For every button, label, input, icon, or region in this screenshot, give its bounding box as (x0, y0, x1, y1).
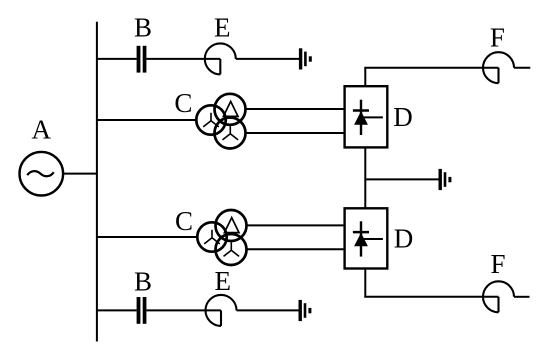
ac source A (20, 152, 64, 196)
wire C1 upper winding to D1 (246, 108, 345, 110)
converter D2 (345, 208, 388, 268)
capacitor B2 (137, 297, 147, 324)
delta symbol (C1 upper winding) (223, 101, 238, 116)
wire filter E1 to ground (236, 58, 299, 60)
filter F1 (483, 52, 514, 83)
svg-text:D: D (394, 224, 414, 254)
transformer C1 (three-winding) (196, 94, 245, 149)
transformer C2 (three-winding) (197, 210, 246, 265)
ground (top branch) (299, 48, 312, 69)
wire capacitor B1 to filter E1 (146, 58, 220, 60)
delta symbol (C2 upper winding) (224, 218, 239, 233)
wire corner to filter F1 (364, 67, 498, 69)
filter E2 (206, 295, 237, 326)
svg-text:C: C (174, 88, 192, 118)
wire filter F1 to line end (514, 67, 530, 69)
wire corner to filter F2 (364, 296, 498, 298)
wye symbol (C2 lower winding) (224, 242, 240, 256)
wire bus to transformer C1 (97, 119, 197, 121)
wye symbol (C1 lower winding) (223, 126, 239, 140)
svg-text:B: B (134, 267, 152, 297)
wye symbol (C2 left winding) (204, 230, 220, 244)
converter D1 (345, 86, 388, 147)
wire D1 top to corner (364, 68, 366, 87)
wire bus to transformer C2 (97, 236, 198, 238)
capacitor B1 (137, 46, 147, 73)
wire C1 lower winding to D1 (246, 132, 345, 134)
ground (dc midpoint) (439, 169, 452, 190)
wire filter E2 to ground (237, 309, 299, 311)
svg-text:F: F (490, 22, 505, 52)
ground (bottom branch) (299, 300, 312, 321)
svg-text:E: E (215, 266, 232, 296)
wire C2 upper winding to D2 (247, 224, 345, 226)
thyristor (inside D1) (353, 100, 383, 135)
svg-text:A: A (32, 115, 52, 145)
wire filter F2 to line end (514, 296, 530, 298)
wire D1 bottom to D2 top (364, 147, 366, 208)
wire bus to capacitor B2 (bottom branch) (97, 309, 137, 311)
svg-text:E: E (214, 13, 231, 43)
filter E1 (205, 43, 236, 74)
wire midpoint to ground (365, 178, 438, 180)
svg-text:C: C (175, 206, 193, 236)
svg-text:B: B (134, 13, 152, 43)
svg-text:F: F (490, 249, 505, 279)
wire capacitor B2 to filter E2 (146, 309, 221, 311)
wire D2 bottom to corner (364, 269, 366, 297)
svg-text:D: D (393, 102, 413, 132)
bus bar (vertical) (96, 22, 98, 342)
filter F2 (483, 281, 514, 312)
thyristor (inside D2) (353, 221, 383, 256)
wye symbol (C1 left winding) (203, 113, 219, 127)
wire C2 lower winding to D2 (247, 248, 345, 250)
wire bus to capacitor B1 (top branch) (97, 58, 137, 60)
wire A to bus (63, 173, 97, 175)
